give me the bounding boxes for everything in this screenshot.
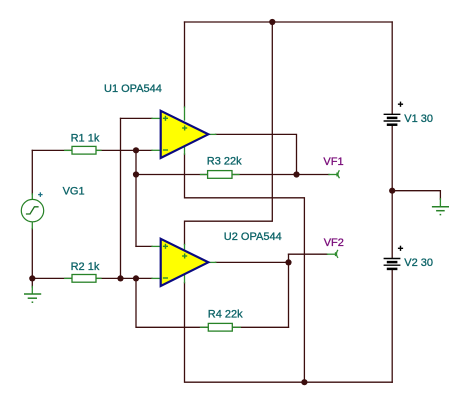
- svg-text:R3 22k: R3 22k: [207, 156, 242, 168]
- svg-text:U2 OPA544: U2 OPA544: [224, 231, 282, 243]
- svg-text:VF1: VF1: [323, 156, 343, 168]
- svg-text:R1 1k: R1 1k: [71, 133, 100, 145]
- svg-text:VG1: VG1: [63, 186, 85, 198]
- svg-text:V1 30: V1 30: [404, 113, 433, 125]
- svg-text:V2 30: V2 30: [404, 257, 433, 269]
- svg-text:R4 22k: R4 22k: [208, 309, 243, 321]
- svg-text:U1 OPA544: U1 OPA544: [104, 83, 162, 95]
- svg-text:R2 1k: R2 1k: [71, 261, 100, 273]
- svg-text:VF2: VF2: [324, 237, 344, 249]
